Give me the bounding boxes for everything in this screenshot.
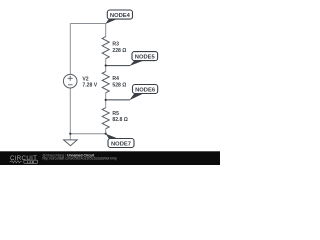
voltage source V2 [63,74,77,88]
wire resistor chain vertical segments [105,24,107,134]
wire left vertical upper (top corner to V2 plus terminal) [69,24,71,75]
V2 labels [82,76,97,88]
node NODE7 [106,134,134,148]
svg-text:R4: R4 [112,76,119,82]
svg-text:V2: V2 [82,76,88,82]
svg-text:228 Ω: 228 Ω [112,48,126,54]
svg-text:82.8 Ω: 82.8 Ω [112,117,127,123]
resistor R3 [102,37,109,59]
wire top horizontal (V2 top to R3 top) [70,23,105,25]
watermark logo zigzag [10,161,22,163]
svg-text:NODE7: NODE7 [111,141,131,147]
svg-text:NODE5: NODE5 [135,54,156,60]
node NODE6 [106,85,158,101]
node NODE5 [106,52,158,66]
svg-text:NODE6: NODE6 [135,87,156,93]
watermark bar [0,151,220,165]
svg-text:R3: R3 [112,42,119,48]
svg-text:NODE4: NODE4 [110,13,131,19]
svg-text:http://circuitlab.com/c/5bc4ca: http://circuitlab.com/c/5bc4ca3t/5c3s3at… [42,157,117,161]
svg-text:528 Ω: 528 Ω [112,82,126,88]
junction dot R4/R5 [105,99,107,101]
ground [64,134,78,146]
watermark logo LAB box [24,160,38,163]
resistor R5 [102,108,109,129]
junction dot ground [69,133,71,135]
svg-text:7.28 V: 7.28 V [82,83,97,89]
resistor R4 [102,72,109,93]
svg-text:R5: R5 [112,111,119,117]
R4 labels [112,76,126,88]
node NODE4 [105,10,132,24]
svg-text:LAB: LAB [27,160,35,164]
R3 labels [112,42,126,54]
junction dot R3/R4 [105,64,107,66]
wire left vertical lower (V2 minus terminal to ground junction) [69,88,71,134]
R5 labels [112,111,127,123]
junction dot R5 bottom [105,133,107,135]
wire bottom horizontal (ground junction to R5 bottom) [70,133,105,135]
